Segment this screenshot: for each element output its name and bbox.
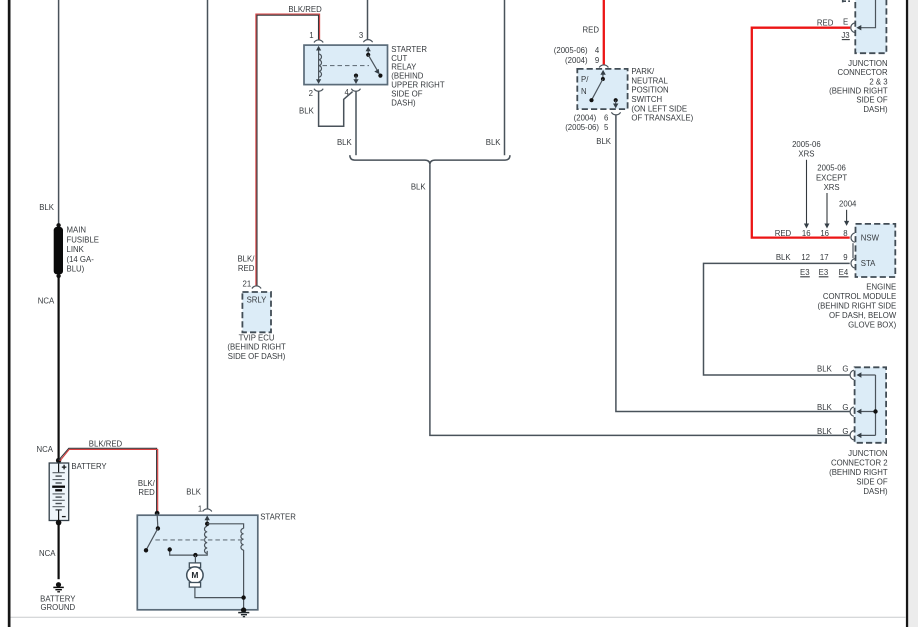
main fusible link F1 (54, 227, 63, 274)
svg-text:OF DASH, BELOW: OF DASH, BELOW (829, 311, 897, 320)
svg-text:ENGINE: ENGINE (866, 283, 896, 292)
svg-text:E: E (843, 18, 848, 27)
svg-text:(BEHIND RIGHT: (BEHIND RIGHT (829, 468, 888, 477)
starter cut relay K1 (304, 45, 388, 85)
svg-text:(2005-06): (2005-06) (554, 46, 588, 55)
svg-text:5: 5 (604, 123, 609, 132)
relay text label (391, 45, 445, 107)
svg-text:E3: E3 (819, 268, 829, 277)
starter switch blade (146, 528, 158, 550)
node fusible link top (56, 223, 60, 227)
svg-text:BLK: BLK (776, 253, 792, 262)
svg-text:2005-06: 2005-06 (792, 140, 821, 149)
wire fusible link to battery (57, 276, 59, 463)
svg-text:BLK: BLK (411, 183, 427, 192)
wire RED to PNP switch (603, 0, 605, 65)
svg-text:BATTERY: BATTERY (71, 462, 107, 471)
svg-text:RED: RED (138, 488, 155, 497)
node fusible link bottom (56, 274, 60, 278)
svg-text:NCA: NCA (37, 445, 54, 454)
svg-text:RED: RED (775, 229, 792, 238)
svg-text:BLK/: BLK/ (237, 255, 255, 264)
pin arc G3 (850, 431, 854, 440)
relay coil with arrows (316, 46, 322, 84)
svg-text:(2004): (2004) (574, 113, 597, 122)
starter box (137, 515, 257, 610)
wire BLK to starter pin 1 (207, 0, 209, 509)
svg-text:BLK: BLK (337, 138, 353, 147)
arrow 2004 (846, 210, 848, 223)
svg-text:POSITION: POSITION (631, 86, 668, 95)
wire BLK/RED relay feed (red stripe) (256, 14, 320, 286)
pin arc J3 E (851, 23, 855, 32)
label TVIP ECU (227, 333, 286, 360)
svg-text:BLK: BLK (817, 365, 833, 374)
pin arc ECM STA (851, 259, 855, 268)
wire BLK to relay pin 3 (367, 0, 369, 40)
pin arc relay 1 (314, 40, 323, 43)
wire BLK/RED battery to starter (red stripe) (60, 449, 158, 513)
TVIP ECU box SRLY (242, 292, 271, 332)
svg-text:STARTER: STARTER (260, 513, 296, 522)
labels E3 E3 E4 underlined (800, 268, 849, 277)
svg-text:BLK: BLK (817, 403, 833, 412)
svg-text:STA: STA (861, 259, 876, 268)
svg-text:XRS: XRS (824, 183, 840, 192)
svg-text:(BEHIND RIGHT: (BEHIND RIGHT (227, 343, 286, 352)
svg-text:2 & 3: 2 & 3 (869, 77, 887, 86)
wire pull-in coil to contact (170, 550, 208, 555)
svg-text:BLU): BLU) (67, 265, 85, 274)
wire RED to junction connector E (752, 28, 850, 238)
dashed box fragment above (842, 0, 850, 2)
svg-text:8: 8 (843, 229, 847, 238)
svg-text:UPPER RIGHT: UPPER RIGHT (391, 81, 445, 90)
pin arc PNP top (599, 65, 608, 68)
svg-text:(2004): (2004) (565, 56, 588, 65)
svg-text:G: G (842, 427, 848, 436)
svg-text:GLOVE BOX): GLOVE BOX) (848, 321, 896, 330)
svg-text:BLK: BLK (596, 137, 612, 146)
node starter fixed contact (168, 547, 172, 551)
svg-text:E4: E4 (839, 268, 849, 277)
starter pin1 arrow (206, 518, 208, 524)
svg-text:PARK/: PARK/ (631, 67, 655, 76)
wire starter internal top (207, 524, 243, 529)
node starter feed (155, 511, 160, 516)
svg-text:NCA: NCA (39, 549, 56, 558)
pin arc ECM NSW (851, 233, 855, 242)
pin arc G2 (850, 407, 854, 416)
svg-text:XRS: XRS (798, 150, 814, 159)
svg-text:BLK: BLK (299, 107, 315, 116)
svg-text:DASH): DASH) (863, 487, 888, 496)
svg-text:2005-06: 2005-06 (817, 164, 846, 173)
junction connector 2&3 box (855, 0, 886, 53)
svg-text:(BEHIND RIGHT SIDE: (BEHIND RIGHT SIDE (817, 302, 896, 311)
label engine control module (817, 283, 896, 330)
junction connector 2 box (855, 367, 887, 443)
svg-text:17: 17 (820, 253, 829, 262)
svg-text:SRLY: SRLY (247, 295, 268, 304)
svg-text:STARTER: STARTER (391, 45, 427, 54)
node starter coil top (205, 522, 209, 526)
svg-text:RED: RED (583, 25, 600, 34)
right page margin (908, 0, 918, 627)
starter ground (238, 607, 249, 616)
wire BLK mid feed (504, 0, 506, 155)
wire relay pin4 down (355, 92, 357, 156)
svg-text:16: 16 (802, 229, 811, 238)
svg-text:LINK: LINK (67, 245, 85, 254)
svg-text:9: 9 (595, 56, 599, 65)
svg-text:NSW: NSW (861, 233, 880, 242)
wire merged BLK down and to junction connector (430, 165, 850, 436)
svg-text:1: 1 (198, 504, 202, 513)
svg-text:BLK/RED: BLK/RED (288, 5, 322, 14)
pin arc PNP bottom (611, 112, 620, 115)
svg-text:2: 2 (309, 89, 313, 98)
svg-text:GROUND: GROUND (40, 603, 75, 612)
pin arc relay 2 (314, 89, 323, 92)
svg-text:MAIN: MAIN (67, 226, 87, 235)
svg-text:BLK/: BLK/ (138, 479, 156, 488)
svg-text:BLK: BLK (39, 203, 55, 212)
arrow 2005-06 EXCEPT XRS (826, 193, 828, 225)
svg-text:(2005-06): (2005-06) (565, 123, 599, 132)
svg-text:SIDE OF DASH): SIDE OF DASH) (228, 352, 286, 361)
svg-text:9: 9 (843, 253, 847, 262)
node starter motor tap (193, 553, 197, 557)
svg-text:(14 GA-: (14 GA- (67, 255, 95, 264)
wire hold-in coil to ground (243, 550, 245, 610)
bottom frame line (11, 616, 906, 618)
PNP text label (631, 67, 693, 123)
svg-text:OF TRANSAXLE): OF TRANSAXLE) (631, 114, 693, 123)
label junction connector 2 (829, 449, 888, 496)
svg-text:SIDE OF: SIDE OF (856, 477, 887, 486)
label junction connector 2 & 3 (829, 59, 888, 114)
merge brace (350, 155, 510, 164)
label BLK 12 17 9 (776, 253, 848, 262)
node battery positive junction (56, 458, 61, 463)
svg-text:RED: RED (238, 264, 255, 273)
svg-text:RELAY: RELAY (391, 63, 417, 72)
relay pin4 contact (353, 74, 358, 85)
svg-text:TVIP ECU: TVIP ECU (239, 333, 275, 342)
svg-text:JUNCTION: JUNCTION (848, 59, 887, 68)
svg-text:4: 4 (595, 46, 600, 55)
svg-text:2004: 2004 (839, 200, 857, 209)
svg-text:N: N (581, 87, 587, 96)
svg-text:CONTROL MODULE: CONTROL MODULE (823, 292, 896, 301)
wire PNP to junction connector (616, 115, 850, 411)
engine control module box (856, 224, 896, 277)
svg-text:J3: J3 (841, 31, 849, 40)
svg-text:CONNECTOR: CONNECTOR (837, 68, 887, 77)
wire BLK/RED relay feed (black stripe) (257, 15, 319, 286)
svg-text:NCA: NCA (38, 297, 55, 306)
left frame border (8, 0, 11, 627)
PNP switch internals (589, 70, 618, 109)
svg-text:G: G (842, 365, 848, 374)
pin arc SRLY 21 (252, 286, 261, 289)
svg-text:FUSIBLE: FUSIBLE (67, 235, 100, 244)
svg-text:(BEHIND: (BEHIND (391, 72, 423, 81)
svg-text:DASH): DASH) (863, 105, 888, 114)
svg-text:1: 1 (309, 31, 313, 40)
pin arc G1 (850, 370, 854, 379)
node starter motor/coil junction (241, 595, 245, 599)
wire BLK ECM STA to junction connector (704, 263, 850, 375)
arrow 2005-06 XRS (806, 160, 808, 225)
svg-text:16: 16 (820, 229, 829, 238)
relay switch (366, 47, 383, 78)
node battery negative (56, 520, 62, 526)
svg-text:RED: RED (817, 18, 834, 27)
svg-text:BLK: BLK (486, 138, 502, 147)
svg-text:12: 12 (801, 253, 810, 262)
wires inside junction connector 2 (857, 372, 878, 438)
svg-text:CUT: CUT (391, 54, 407, 63)
wire relay pin2 to pin4 (319, 91, 353, 126)
battery ground symbol (53, 582, 64, 592)
wire battery feed upper BLK (58, 0, 60, 225)
svg-text:(ON LEFT SIDE: (ON LEFT SIDE (631, 104, 687, 113)
right frame border (906, 0, 908, 627)
svg-text:6: 6 (604, 113, 608, 122)
park/neutral position switch S1 (577, 69, 627, 109)
svg-text:M: M (191, 570, 198, 580)
svg-text:P/: P/ (581, 75, 589, 84)
svg-text:SIDE OF: SIDE OF (391, 89, 422, 98)
relay mechanical link dashed (323, 65, 370, 67)
svg-text:E3: E3 (800, 268, 810, 277)
svg-text:G: G (842, 403, 848, 412)
svg-text:SIDE OF: SIDE OF (856, 96, 887, 105)
svg-text:NEUTRAL: NEUTRAL (631, 76, 668, 85)
battery B1 (49, 463, 68, 521)
labels BLK G rows (817, 365, 848, 436)
starter pull-in coil (204, 526, 207, 553)
label RED 16 16 8 (775, 229, 848, 238)
wire battery to ground (57, 521, 59, 579)
svg-text:BLK/RED: BLK/RED (89, 440, 123, 449)
starter switch contact upper (156, 513, 159, 528)
svg-text:CONNECTOR 2: CONNECTOR 2 (831, 459, 888, 468)
svg-text:SWITCH: SWITCH (631, 95, 662, 104)
starter hold-in coil (241, 528, 244, 550)
connector line between pins (852, 243, 854, 258)
svg-text:EXCEPT: EXCEPT (816, 173, 847, 182)
svg-text:BLK: BLK (186, 487, 202, 496)
wire BLK/RED battery to starter (black stripe) (59, 448, 157, 513)
motor M (187, 555, 244, 598)
svg-text:BLK: BLK (817, 427, 833, 436)
svg-text:JUNCTION: JUNCTION (848, 449, 887, 458)
mechanical link dashed (155, 539, 241, 541)
pin arc starter 1 (203, 509, 212, 512)
wire inside J3 (859, 0, 876, 28)
svg-text:21: 21 (243, 280, 252, 289)
pin arc relay 4 (351, 89, 360, 92)
svg-text:(BEHIND RIGHT: (BEHIND RIGHT (829, 87, 888, 96)
svg-text:DASH): DASH) (391, 98, 416, 107)
label main fusible link (67, 226, 100, 274)
pin arc relay 3 (363, 40, 372, 43)
svg-text:3: 3 (359, 31, 363, 40)
